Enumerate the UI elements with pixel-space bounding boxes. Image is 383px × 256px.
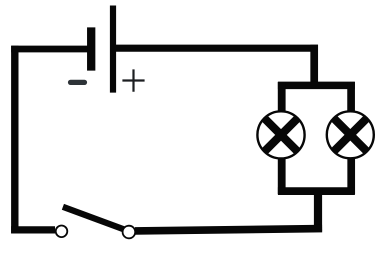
wire: left vertical rail bbox=[11, 46, 18, 234]
wire: bottom stub from lamp L2 bbox=[347, 157, 355, 195]
lamp L1 outline circle bbox=[257, 111, 304, 158]
wire: top-left horizontal from left rail to battery negative plate bbox=[11, 46, 91, 53]
switch S1 left contact bbox=[56, 226, 68, 238]
wire: parallel branch top rail bbox=[278, 82, 355, 90]
lamp L1 bulb body (white disc) bbox=[257, 111, 304, 158]
wire: bottom-left horizontal to switch left contact bbox=[11, 226, 55, 233]
wire: top-right horizontal from battery positive plate bbox=[116, 45, 318, 52]
battery B1 positive plate (tall) bbox=[110, 6, 116, 93]
lamp L1 cross bbox=[265, 119, 298, 152]
wire: bottom-right horizontal from switch right contact to drop bbox=[135, 229, 322, 231]
battery B1 negative plate (short) bbox=[87, 27, 95, 70]
lamp L2 outline circle bbox=[327, 111, 374, 158]
battery B1 minus label bbox=[71, 80, 85, 85]
wire: parallel branch bottom rail bbox=[278, 187, 355, 195]
battery B1 plus label bbox=[122, 69, 144, 91]
switch S1 right contact (pivot) bbox=[123, 226, 136, 239]
wire: top stub to lamp L1 bbox=[278, 82, 286, 112]
lamp L2 cross bbox=[334, 119, 367, 152]
wire: vertical drop from top wire to parallel top rail bbox=[310, 45, 318, 88]
wire: bottom stub from lamp L1 bbox=[278, 158, 286, 195]
lamp L2 bulb body (white disc) bbox=[327, 111, 374, 158]
wire: top stub to lamp L2 bbox=[347, 82, 355, 111]
switch S1 lever (open) bbox=[63, 207, 127, 231]
wire: vertical drop from parallel bottom rail to bottom wire bbox=[314, 188, 322, 232]
